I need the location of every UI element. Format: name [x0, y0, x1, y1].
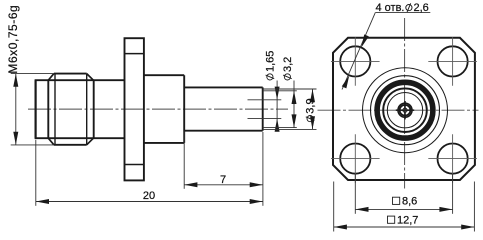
rear sleeve top edge — [184, 86, 263, 88]
M6 arrow down — [13, 132, 18, 145]
socket ring — [400, 105, 411, 116]
side view centerline — [28, 108, 288, 110]
dim 7 extension line left — [183, 132, 185, 189]
hex top flat — [54, 73, 87, 75]
svg-text:7: 7 — [220, 174, 226, 186]
rear body bottom edge — [144, 142, 184, 144]
svg-text:4 отв.: 4 отв. — [376, 2, 405, 14]
dia 1.65 extension lines — [248, 99, 282, 101]
hole crosshairs — [331, 37, 477, 183]
mounting hole top-right — [438, 46, 468, 76]
flange corner line top — [125, 53, 144, 55]
dia 1.65 dimension line — [276, 81, 278, 132]
center cross dark — [396, 101, 414, 119]
dim 20 extension line left — [35, 140, 37, 206]
mounting hole top-left — [340, 46, 370, 76]
dia 3.2 extension lines — [263, 90, 297, 92]
M6 dimension line — [15, 74, 17, 145]
label sq8,6 — [393, 195, 418, 207]
svg-text:20: 20 — [143, 190, 155, 202]
dim 8.6 extension lines — [354, 174, 356, 214]
label dia3,9 — [305, 98, 317, 121]
rear body top edge — [144, 74, 184, 76]
M6 arrow up — [13, 74, 18, 87]
front view vertical centerline — [404, 18, 406, 189]
label sq12,7 — [388, 214, 419, 226]
svg-text:12,7: 12,7 — [397, 214, 418, 226]
heavy ring — [377, 82, 433, 138]
svg-text:М6х0,75-6g: М6х0,75-6g — [6, 5, 20, 74]
socket circle outer — [398, 103, 412, 117]
dim 8.6 line — [355, 208, 452, 210]
mounting hole bottom-left — [340, 144, 370, 174]
step shoulder — [183, 75, 185, 143]
mounting hole bottom-right — [438, 144, 468, 174]
dim 20/7 extension line right — [262, 132, 264, 206]
svg-text:3,9: 3,9 — [305, 98, 317, 113]
body circle — [371, 76, 440, 145]
inner circle — [387, 93, 422, 128]
flange plate side view — [125, 38, 144, 180]
pin hole — [403, 108, 407, 112]
dia 3.2 dimension line — [293, 81, 295, 128]
dia 3.9 arrow top — [310, 89, 315, 102]
dim 20 arrow right — [250, 199, 263, 204]
hex bottom flat — [54, 144, 87, 146]
hex left face line — [54, 74, 56, 145]
rear sleeve bottom edge — [184, 130, 263, 132]
dim 20 arrow left — [36, 199, 49, 204]
flange front view outline — [333, 38, 475, 180]
flange corner line bottom — [125, 164, 144, 166]
rear sleeve end face — [262, 87, 264, 130]
dia 3.2 arrow bottom — [292, 114, 297, 127]
dia 3.2 arrow top — [292, 91, 297, 104]
body circle outer — [363, 68, 448, 153]
dim 7 line — [184, 184, 263, 186]
thread barrel bottom edge — [35, 137, 125, 139]
dim 12.7 extension lines — [333, 182, 335, 232]
dim 12.7 arrow right — [461, 225, 474, 230]
connector front face — [34, 80, 36, 138]
label dia3,2 — [282, 57, 294, 80]
hex chamfer bottom-right — [87, 138, 94, 145]
front view horizontal centerline — [318, 109, 479, 111]
M6 thread dimension extension line top — [11, 73, 54, 75]
dia 2.6 arrow lower-left — [342, 75, 350, 88]
thread barrel top edge — [35, 79, 125, 81]
dim 7 arrow right — [250, 182, 263, 187]
dia 3.9 arrow bottom — [310, 116, 315, 129]
leader underline — [375, 12, 430, 14]
dim 7 arrow left — [184, 182, 197, 187]
dim 8.6 arrow left — [355, 207, 368, 212]
dia 3.9 extension lines — [263, 88, 317, 90]
dia 1.65 arrow bottom — [275, 119, 280, 132]
hex chamfer bottom-left — [48, 138, 54, 145]
dim 8.6 arrow right — [439, 207, 452, 212]
dim 20 line — [36, 201, 263, 203]
svg-text:8,6: 8,6 — [402, 195, 417, 207]
hex chamfer top-left — [48, 74, 54, 81]
insulator circle — [383, 88, 427, 132]
dim 12.7 arrow left — [334, 225, 347, 230]
hex-cylinder boundary — [93, 80, 95, 138]
dia 3.9 dimension line — [312, 89, 314, 129]
hex chamfer top-right — [87, 74, 94, 81]
hex right face line — [86, 74, 88, 145]
svg-text:3,2: 3,2 — [282, 57, 294, 72]
dia 2.6 arrow upper-right — [361, 34, 369, 47]
label dia1,65 — [265, 51, 277, 80]
barrel-hex boundary — [47, 80, 49, 138]
M6 thread dimension extension line bottom — [11, 144, 54, 146]
dim 12.7 line — [334, 226, 475, 228]
dia 1.65 arrow top — [275, 87, 280, 100]
svg-text:1,65: 1,65 — [265, 51, 277, 72]
svg-text:2,6: 2,6 — [414, 2, 429, 14]
leader line 4 holes — [342, 13, 375, 90]
